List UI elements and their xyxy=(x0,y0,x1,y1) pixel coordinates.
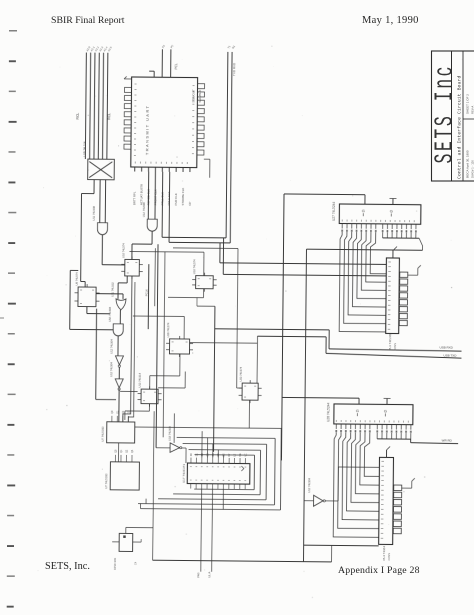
svg-text:RP30 10K: RP30 10K xyxy=(113,558,117,570)
svg-text:U8 74L574: U8 74L574 xyxy=(75,272,79,286)
svg-text:TXD RXD: TXD RXD xyxy=(232,62,236,76)
svg-text:U12 74L504: U12 74L504 xyxy=(109,339,113,354)
svg-text:PA0: PA0 xyxy=(196,572,200,578)
svg-text:U10 74L574: U10 74L574 xyxy=(121,243,125,258)
svg-text:U18 74L504: U18 74L504 xyxy=(168,426,172,441)
svg-text:PL3 74C245: PL3 74C245 xyxy=(388,333,392,350)
svg-text:BOCA April 30, 1990: BOCA April 30, 1990 xyxy=(466,150,470,178)
svg-text:REV A: REV A xyxy=(471,106,474,114)
svg-text:U1B 74L514: U1B 74L514 xyxy=(82,141,86,156)
svg-text:PCL: PCL xyxy=(174,63,178,69)
svg-text:DWG# 1 - 120: DWG# 1 - 120 xyxy=(471,160,474,178)
svg-text:CP: CP xyxy=(188,202,192,206)
svg-text:G: G xyxy=(384,409,387,413)
svg-text:G: G xyxy=(390,209,393,213)
svg-text:G: G xyxy=(356,409,359,413)
svg-text:U27 74L5244: U27 74L5244 xyxy=(332,202,336,221)
svg-text:BRTT RPL: BRTT RPL xyxy=(133,191,137,205)
svg-text:WR RD: WR RD xyxy=(442,438,453,442)
svg-text:Appendix I Page 28: Appendix I Page 28 xyxy=(338,565,420,576)
svg-text:U7 74L5193: U7 74L5193 xyxy=(101,426,105,442)
svg-text:CONN: CONN xyxy=(393,343,397,351)
svg-text:U13 74L514: U13 74L514 xyxy=(138,372,142,387)
svg-text:SETS Inc: SETS Inc xyxy=(431,64,460,164)
svg-text:U23 74L574: U23 74L574 xyxy=(239,366,243,381)
svg-text:U20 74L574: U20 74L574 xyxy=(166,322,170,337)
svg-text:U28 74L5244: U28 74L5244 xyxy=(326,402,330,421)
svg-text:SBIR Final Report: SBIR Final Report xyxy=(51,15,125,26)
svg-text:TRANSMIT UART: TRANSMIT UART xyxy=(144,105,149,156)
svg-text:U1A 74L508: U1A 74L508 xyxy=(142,202,146,217)
svg-text:SER/BUF: SER/BUF xyxy=(198,89,202,102)
svg-text:U12 74L504: U12 74L504 xyxy=(109,362,113,377)
svg-text:SER/OUT: SER/OUT xyxy=(191,89,195,103)
svg-text:ACTUAT BUSTR: ACTUAT BUSTR xyxy=(140,184,144,205)
svg-text:PCLK: PCLK xyxy=(145,289,149,296)
svg-text:U11 74L508: U11 74L508 xyxy=(92,206,96,221)
svg-text:RCL: RCL xyxy=(107,113,111,120)
svg-text:U7 74L5193: U7 74L5193 xyxy=(104,473,108,489)
svg-text:SETS, Inc.: SETS, Inc. xyxy=(45,561,90,572)
svg-text:U17 74HC373: U17 74HC373 xyxy=(182,464,186,483)
svg-text:SHEET 1 OF 2: SHEET 1 OF 2 xyxy=(466,94,470,114)
svg-text:PUR CLK: PUR CLK xyxy=(174,193,178,205)
svg-text:PL4 74364: PL4 74364 xyxy=(382,546,386,561)
svg-text:RCL: RCL xyxy=(76,113,80,120)
svg-text:G: G xyxy=(362,209,365,213)
svg-text:USB RXD: USB RXD xyxy=(440,345,454,349)
svg-text:U11 74L532: U11 74L532 xyxy=(111,282,115,297)
svg-text:STROBE CLK: STROBE CLK xyxy=(181,188,185,206)
svg-text:UL A: UL A xyxy=(207,572,211,578)
svg-text:Control and Interface Circuit: Control and Interface Circuit Board xyxy=(457,75,463,179)
svg-text:U10 74L574: U10 74L574 xyxy=(192,259,196,274)
svg-text:USB TXD: USB TXD xyxy=(443,353,457,357)
svg-text:U12 74L504: U12 74L504 xyxy=(307,478,311,493)
svg-text:May 1, 1990: May 1, 1990 xyxy=(362,15,419,26)
svg-text:CONN: CONN xyxy=(387,553,391,561)
